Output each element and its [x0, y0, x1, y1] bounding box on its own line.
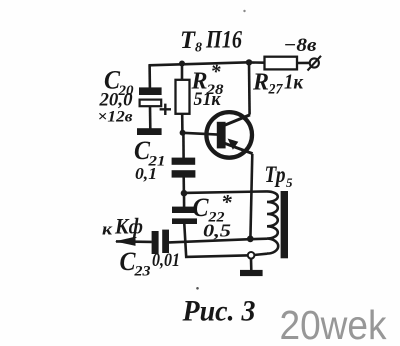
- capacitor C23 plate left: [152, 231, 159, 254]
- svg-text:*: *: [221, 190, 232, 214]
- terminal -8v circle with slash: [308, 56, 322, 71]
- transistor T8 emitter arrow: [228, 139, 239, 150]
- svg-text:0,01: 0,01: [152, 250, 180, 271]
- node emitter-tap junction: [247, 236, 254, 243]
- label C22 value: [193, 190, 233, 240]
- capacitor C21 plate top: [172, 158, 196, 165]
- svg-text:R: R: [252, 69, 269, 95]
- svg-text:23: 23: [133, 263, 150, 279]
- svg-text:20wek: 20wek: [280, 302, 388, 346]
- svg-text:Т: Т: [180, 25, 196, 54]
- resistor R27: [265, 57, 298, 70]
- svg-text:Кф: Кф: [114, 214, 143, 239]
- speck top: [243, 10, 245, 12]
- svg-text:Тр: Тр: [265, 162, 286, 187]
- wire emitter down: [250, 154, 252, 239]
- capacitor C20 plate bottom hollow: [140, 100, 162, 107]
- node base junction: [180, 130, 186, 136]
- output arrowhead: [115, 237, 136, 246]
- svg-text:27: 27: [268, 82, 284, 98]
- wire rail to R27: [249, 61, 265, 64]
- svg-text:С: С: [193, 193, 210, 222]
- svg-text:20,0: 20,0: [98, 91, 132, 111]
- wire C20 drop: [148, 65, 151, 88]
- ground under transformer: [240, 270, 263, 276]
- transformer bottom terminal circle: [248, 252, 255, 259]
- label R28 51k: [191, 61, 225, 110]
- svg-text:5: 5: [286, 175, 293, 190]
- svg-text:51к: 51к: [194, 89, 222, 110]
- label C23 value: [120, 247, 181, 279]
- capacitor C21 plate bottom: [172, 170, 196, 177]
- svg-text:П16: П16: [205, 25, 242, 54]
- wire C20 to ground: [149, 107, 152, 129]
- ground under C20: [137, 128, 162, 135]
- transformer Tr5 primary coil: [267, 191, 278, 253]
- transistor T8 circle: [206, 112, 252, 158]
- wire C21 to node J: [182, 177, 185, 193]
- node rail-collector junction: [246, 59, 252, 65]
- label R27 1k: [252, 69, 304, 97]
- wire collector up: [248, 62, 251, 114]
- label T8 P16: [180, 25, 242, 56]
- capacitor C20 polarity plus: [160, 104, 171, 115]
- capacitor C22 plate top: [172, 207, 195, 213]
- label k Kf output: [102, 214, 143, 239]
- node C21-C22-coil junction: [181, 190, 188, 197]
- capacitor C22 plate bottom: [172, 218, 197, 224]
- label Tr5: [265, 162, 294, 190]
- capacitor C23 plate right: [162, 230, 169, 253]
- wire node J to coil top: [184, 191, 267, 193]
- speck above caption: [196, 287, 199, 290]
- capacitor C20 plate top: [139, 87, 162, 95]
- resistor R28: [176, 80, 190, 114]
- svg-text:−8в: −8в: [284, 35, 318, 56]
- wire C22 down and bottom run to coil bottom: [184, 224, 267, 257]
- wire R28 to base node: [181, 113, 184, 133]
- wire C23 to emitter tap: [169, 239, 267, 243]
- label C20 value: [98, 66, 134, 126]
- svg-text:к: к: [102, 220, 112, 239]
- svg-text:×12в: ×12в: [98, 109, 133, 126]
- label C21 value: [134, 136, 166, 183]
- svg-text:0,1: 0,1: [135, 164, 157, 183]
- wire base node to C21: [182, 133, 185, 158]
- wire base: [183, 133, 219, 135]
- transistor T8 collector stroke: [222, 115, 251, 127]
- node rail-R28 junction: [179, 61, 185, 67]
- wire top rail: [149, 62, 250, 65]
- wire transformer ground stem: [250, 259, 253, 271]
- wire rail to R28: [181, 63, 184, 80]
- wire node J to C22: [183, 193, 186, 207]
- svg-text:*: *: [211, 61, 222, 83]
- svg-text:1к: 1к: [284, 69, 304, 93]
- svg-text:8: 8: [195, 41, 202, 56]
- wire output arrow line: [116, 240, 152, 243]
- svg-text:0,5: 0,5: [203, 220, 231, 240]
- transformer Tr5 core: [281, 191, 288, 258]
- svg-text:Рис. 3: Рис. 3: [182, 296, 256, 328]
- transistor T8 emitter stroke: [223, 143, 253, 154]
- transistor T8 base bar: [217, 122, 226, 149]
- wire R27 to terminal: [297, 62, 310, 65]
